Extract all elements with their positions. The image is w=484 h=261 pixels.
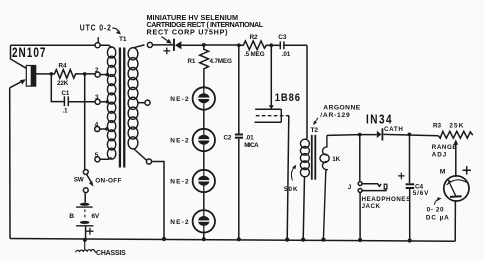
wire jack feed — [359, 135, 361, 182]
svg-text:R1: R1 — [188, 58, 196, 65]
svg-text:DC µA: DC µA — [426, 214, 450, 221]
wire top rail left (collector to T1 terminal 1) — [11, 44, 96, 46]
svg-text:/AR-129: /AR-129 — [320, 112, 350, 119]
wire bottom common rail — [10, 239, 455, 242]
svg-text:C2: C2 — [224, 135, 232, 142]
svg-text:1B86: 1B86 — [275, 93, 301, 105]
label + polarity — [163, 48, 170, 55]
wire lamp4 to rail — [203, 233, 205, 240]
ground chassis — [76, 240, 97, 253]
wire C4 feed — [409, 134, 411, 183]
svg-text:NE-2: NE-2 — [170, 138, 190, 145]
svg-text:JACK: JACK — [362, 203, 381, 210]
resistor R1 — [200, 45, 209, 87]
svg-text:CATH: CATH — [384, 126, 404, 133]
wire secondary top to HV terminal — [134, 45, 145, 48]
wire T2 secondary top rail — [327, 134, 377, 137]
node jack branch junction — [358, 133, 362, 137]
svg-text:M: M — [440, 169, 446, 176]
wire label arrow to T2 — [315, 118, 318, 123]
transformer T1 core — [119, 48, 126, 168]
svg-text:2: 2 — [95, 67, 99, 74]
battery B 6V — [76, 193, 93, 239]
svg-text:ADJ: ADJ — [432, 152, 447, 159]
svg-text:4.7MEG: 4.7MEG — [210, 58, 232, 65]
wire emitter down left rail — [9, 88, 11, 239]
wire terminal5 to primary — [100, 158, 112, 160]
wire lamp3-lamp4 — [203, 192, 205, 210]
tube V1 1B86 — [255, 109, 290, 122]
svg-text:T1: T1 — [119, 36, 127, 43]
meter M 0-20 DC uA — [444, 176, 469, 241]
wire label arrow to T1 — [112, 28, 118, 31]
svg-text:B: B — [69, 213, 74, 220]
lamp NE-2 #4 — [193, 210, 215, 232]
switch SW ON-OFF — [83, 170, 93, 193]
diode D1 selenium rectifier — [153, 39, 204, 51]
svg-text:5: 5 — [95, 152, 99, 159]
wire V1 starter to rail — [287, 116, 289, 240]
wire R3 wiper to meter — [455, 144, 457, 177]
svg-text:0- 20: 0- 20 — [427, 207, 445, 214]
lamp NE-2 #2 — [193, 129, 215, 151]
wire terminal3 to primary — [100, 101, 107, 103]
node terminal 4 — [95, 126, 100, 131]
svg-text:C1: C1 — [62, 90, 70, 97]
lamp NE-2 #1 — [193, 87, 215, 109]
wire lamp2-lamp3 — [203, 151, 205, 170]
svg-text:T2: T2 — [311, 127, 319, 134]
wire lamp1-lamp2 — [203, 110, 205, 129]
svg-text:4: 4 — [95, 121, 99, 128]
wire 50K arrow — [291, 167, 294, 180]
svg-text:ON-OFF: ON-OFF — [95, 177, 122, 184]
transformer T2 secondary winding 1K — [320, 135, 329, 239]
node terminal 1 — [95, 43, 100, 48]
transformer T1 secondary winding — [128, 48, 138, 149]
wire label arrow to rectifier — [162, 37, 168, 41]
svg-text:50K: 50K — [284, 186, 299, 193]
wire secondary bottom terminal to rail — [152, 162, 164, 239]
svg-text:.1: .1 — [63, 108, 69, 115]
node terminal 5 — [95, 157, 100, 162]
svg-text:CHASSIS: CHASSIS — [96, 250, 126, 257]
wire T2 primary bottom to rail — [303, 177, 304, 240]
svg-text:.5 MEG: .5 MEG — [244, 51, 265, 58]
lamp NE-2 #3 — [193, 170, 215, 192]
jack J headphones — [358, 182, 387, 240]
svg-text:NE-2: NE-2 — [170, 96, 190, 103]
svg-text:SW: SW — [74, 177, 85, 184]
node R2 right junction — [269, 43, 273, 47]
wire secondary bottom to terminal — [134, 149, 147, 160]
transformer T2 primary winding 50K — [300, 139, 309, 177]
resistor R4 — [51, 70, 95, 79]
svg-text:RECT CORP U75HP): RECT CORP U75HP) — [147, 28, 229, 37]
svg-text:ARGONNE: ARGONNE — [323, 105, 360, 112]
wire anode feed to V1 — [270, 45, 272, 105]
node HV terminal — [147, 42, 152, 47]
resistor R2 — [239, 41, 271, 50]
svg-text:.01: .01 — [245, 134, 254, 141]
node R2 left junction — [237, 43, 241, 47]
wire switch feed — [84, 74, 86, 169]
capacitor C3 — [271, 41, 307, 49]
capacitor C2 — [235, 135, 243, 240]
node base junction — [50, 72, 54, 76]
svg-text:2N107: 2N107 — [12, 45, 46, 61]
svg-text:C3: C3 — [278, 34, 287, 41]
svg-text:R3: R3 — [433, 123, 441, 130]
node battery-rail junction — [83, 238, 87, 242]
svg-text:.01: .01 — [282, 51, 291, 58]
diode D2 IN34 — [377, 128, 439, 140]
transformer T2 core — [311, 135, 316, 180]
svg-text:6V: 6V — [91, 213, 100, 220]
node C4 branch junction — [408, 133, 412, 137]
svg-text:3: 3 — [95, 94, 99, 101]
node terminal 3 — [95, 99, 100, 104]
wire terminal4 to primary — [100, 128, 107, 130]
svg-text:25K: 25K — [449, 123, 464, 130]
capacitor C1 — [51, 74, 95, 106]
node R4 right junction — [83, 72, 87, 76]
svg-text:1K: 1K — [332, 156, 340, 163]
wire meter pointer arrow — [434, 199, 439, 205]
wire top rail to R2 — [204, 44, 239, 46]
transistor Q1 2N107 — [10, 45, 52, 88]
node secondary bottom terminal — [146, 159, 151, 164]
wire terminal2 to primary — [100, 74, 107, 76]
svg-text:UTC 0-2: UTC 0-2 — [80, 23, 112, 33]
svg-text:IN34: IN34 — [366, 113, 393, 126]
svg-text:5/6V: 5/6V — [413, 190, 429, 197]
transformer T1 primary winding — [107, 47, 115, 159]
svg-text:MICA: MICA — [244, 142, 259, 149]
svg-text:NE-2: NE-2 — [170, 219, 190, 226]
label + meter — [463, 166, 471, 174]
svg-text:RANGE: RANGE — [432, 144, 457, 151]
node R1 top junction — [202, 43, 206, 47]
wire secondary mid tap — [138, 102, 145, 104]
capacitor C4 — [406, 184, 415, 240]
svg-text:R4: R4 — [59, 62, 67, 69]
resistor R3 25K potentiometer — [438, 131, 473, 138]
svg-text:22K: 22K — [57, 80, 69, 87]
node secondary mid terminal — [145, 100, 150, 105]
wire terminal1 to primary — [100, 45, 111, 48]
node terminal 2 — [95, 72, 100, 77]
svg-text:NE-2: NE-2 — [170, 179, 190, 186]
wire C3 to T2 primary — [306, 45, 307, 140]
svg-text:R2: R2 — [250, 34, 259, 41]
label + polarity C4 — [398, 173, 405, 180]
wire C2 branch upper — [238, 45, 240, 133]
svg-text:HEADPHONES: HEADPHONES — [362, 196, 411, 203]
